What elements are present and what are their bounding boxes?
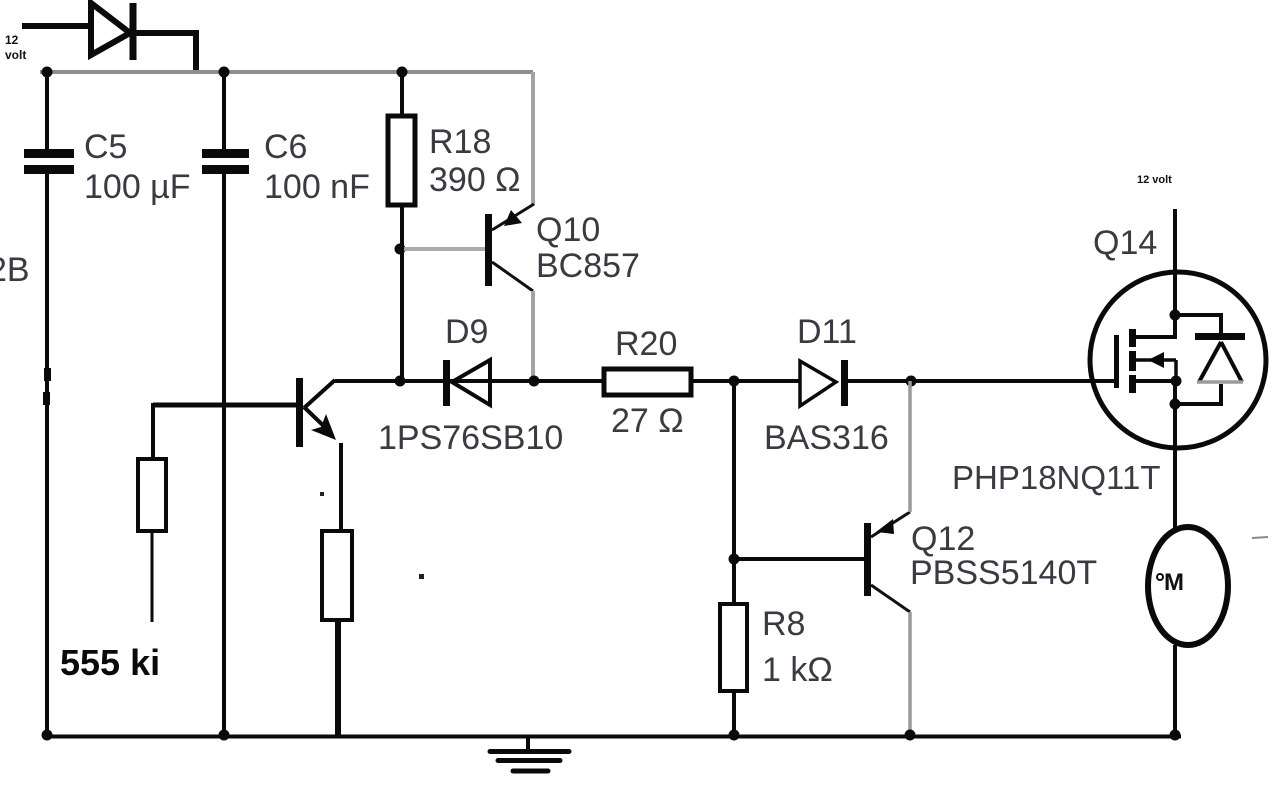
- label 555 ki: [60, 642, 160, 683]
- node: source a: [1171, 376, 1182, 387]
- capacitor C6 leads: [222, 72, 226, 735]
- diode D9 cathode bar: [443, 360, 450, 406]
- diode D-in cathode bar: [130, 3, 137, 60]
- label R18: [429, 123, 521, 199]
- svg-text:volt: volt: [5, 48, 26, 62]
- wire: 12V input lead: [22, 23, 90, 29]
- diode D11 triangle (pointing right): [800, 361, 836, 406]
- body diode top wire: [1175, 315, 1221, 333]
- svg-text:390 Ω: 390 Ω: [429, 161, 521, 199]
- wire: gray drop to Q10 emitter: [531, 72, 535, 205]
- mosfet source connection: [1136, 379, 1176, 383]
- transistor Q12 bar: [864, 523, 871, 596]
- transistor 555 NPN collector: [304, 380, 335, 408]
- svg-text:Q12: Q12: [911, 520, 975, 558]
- wire: Q12 base wire: [734, 557, 864, 561]
- label 12 volt (right): [1137, 174, 1172, 186]
- wire: top +12V rail (gray): [40, 70, 533, 74]
- resistor (555 lower-left): [138, 459, 166, 531]
- wire: bottom ground rail: [45, 735, 1181, 739]
- label Q10: [536, 211, 640, 285]
- motor M ellipse: [1148, 527, 1228, 645]
- svg-text:Q10: Q10: [536, 211, 600, 249]
- svg-text:R8: R8: [762, 605, 805, 643]
- resistor R8: [720, 604, 747, 691]
- svg-text:R20: R20: [615, 325, 677, 363]
- svg-text:C6: C6: [264, 128, 307, 166]
- svg-text:C5: C5: [84, 128, 127, 166]
- svg-text:D11: D11: [797, 313, 857, 351]
- svg-text:27 Ω: 27 Ω: [611, 402, 684, 440]
- mosfet Q14 gate bar: [1114, 335, 1119, 388]
- mosfet Q14 channel segments: [1129, 329, 1136, 393]
- svg-text:PHP18NQ11T: PHP18NQ11T: [952, 459, 1160, 496]
- resistor (555 emitter): [322, 531, 352, 620]
- wire: diode cathode to rail: [133, 33, 196, 72]
- mosfet body arrow: [1136, 352, 1176, 381]
- wire: R20 to node: [691, 379, 800, 383]
- label BAS316: [764, 419, 889, 457]
- svg-text:M: M: [1164, 569, 1184, 596]
- label 1PS76SB10: [378, 419, 563, 457]
- label PHP18NQ11T: [952, 459, 1160, 496]
- resistor R20: [604, 369, 691, 395]
- svg-text:555 ki: 555 ki: [60, 642, 160, 683]
- svg-text:12: 12: [5, 33, 19, 47]
- diode D11 cathode bar: [841, 360, 848, 406]
- wire: D11 to MOSFET gate: [848, 379, 1115, 383]
- node: D11-Q12: [906, 376, 917, 387]
- svg-text:PBSS5140T: PBSS5140T: [910, 554, 1097, 592]
- node: ground rail C6: [219, 730, 230, 741]
- motor label °M: [1157, 569, 1184, 596]
- body diode cathode bar: [1195, 333, 1245, 340]
- label C6: [264, 128, 370, 206]
- svg-text:BAS316: BAS316: [764, 419, 889, 457]
- wire: motor to ground rail: [1173, 645, 1177, 735]
- transistor 555 NPN emitter with arrow: [304, 407, 336, 440]
- transistor Q10 emitter: [492, 204, 534, 230]
- node: Q12 ground: [905, 730, 916, 741]
- wire: gray Q10 collector to D9 node: [531, 291, 535, 377]
- mosfet Q14 body circle: [1090, 272, 1266, 448]
- node: drain: [1170, 310, 1181, 321]
- node: D9 cathode / Q10: [529, 376, 540, 387]
- svg-text:2B: 2B: [0, 251, 30, 289]
- wire: source to body node: [1173, 381, 1177, 404]
- transistor Q12 emitter with arrow: [871, 512, 910, 537]
- node: rail-C6: [219, 67, 230, 78]
- node: motor ground: [1170, 730, 1181, 741]
- wire: gray D11 node to Q12 emitter: [908, 381, 912, 512]
- resistor R18 top lead: [400, 72, 404, 116]
- stray blobs on C5 lead: [43, 368, 51, 405]
- label Q14: [1093, 224, 1157, 262]
- label D11: [797, 313, 857, 351]
- wire: middle rail left segment: [335, 379, 602, 383]
- node: rail-R18: [397, 67, 408, 78]
- svg-text:100 µF: 100 µF: [84, 168, 191, 206]
- label Q12: [910, 520, 1097, 592]
- svg-text:100 nF: 100 nF: [264, 168, 370, 206]
- label R20: [611, 325, 684, 440]
- node: R8 ground: [729, 730, 740, 741]
- diode D9 triangle (pointing left): [452, 360, 490, 405]
- capacitor C5 plates: [24, 149, 74, 174]
- resistor R18: [388, 116, 415, 205]
- body diode triangle: [1197, 342, 1243, 382]
- transistor 555 NPN bar: [296, 378, 303, 447]
- label R8: [762, 605, 833, 689]
- transistor Q10 collector: [492, 262, 533, 291]
- wire: gray base wire to Q10: [404, 247, 486, 251]
- label D9: [445, 313, 488, 351]
- label 2B (cut at edge): [0, 251, 30, 289]
- svg-text:D9: D9: [445, 313, 488, 351]
- wire: thick lead to ground rail: [335, 620, 341, 735]
- node: R8 top / Q12 base: [729, 554, 740, 565]
- svg-text:1 kΩ: 1 kΩ: [762, 651, 833, 689]
- stray gray dash right: [1252, 537, 1268, 538]
- body diode bottom wire: [1175, 384, 1221, 404]
- wire: R8 to ground rail: [732, 691, 736, 735]
- node: source b: [1170, 399, 1181, 410]
- wire: drain from 12V: [1173, 209, 1177, 315]
- node: R20/R8: [729, 376, 740, 387]
- mosfet drain connection: [1136, 315, 1175, 337]
- node: rail-C5: [42, 67, 53, 78]
- node: ground rail C5: [42, 730, 53, 741]
- wire: corner to lower-left resistor: [151, 403, 155, 459]
- transistor Q12 collector: [871, 585, 910, 612]
- transistor Q10 bar: [485, 214, 492, 286]
- node: R18-Q10 base: [395, 244, 406, 255]
- wire: source down to motor: [1173, 404, 1177, 528]
- node: D9 anode: [395, 376, 406, 387]
- svg-text:12 volt: 12 volt: [1137, 174, 1172, 186]
- wire: node down to R8/Q12 base: [732, 381, 736, 604]
- resistor R18 bottom lead: [400, 205, 404, 381]
- label 12 volt (left): [5, 33, 26, 62]
- stray dot b: [419, 574, 424, 579]
- svg-text:Q14: Q14: [1093, 224, 1157, 262]
- diode D-in triangle: [91, 3, 130, 55]
- svg-text:R18: R18: [429, 123, 491, 161]
- wire: open stub below resistor: [151, 531, 154, 622]
- wire: emitter down: [339, 443, 343, 531]
- capacitor C5 leads: [45, 72, 49, 735]
- label C5: [84, 128, 191, 206]
- stray dot a: [320, 492, 324, 496]
- wire: gray Q12 collector to ground: [908, 612, 912, 735]
- svg-text:BC857: BC857: [536, 247, 640, 285]
- transistor 555-output NPN base wire: [153, 403, 298, 408]
- svg-text:1PS76SB10: 1PS76SB10: [378, 419, 563, 457]
- ground symbol: [490, 736, 569, 771]
- capacitor C6 plates: [202, 149, 249, 174]
